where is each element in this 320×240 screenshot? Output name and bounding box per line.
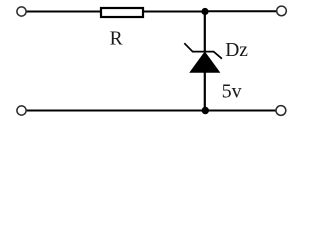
- zener diode Dz cathode bar: [184, 43, 222, 59]
- wire zener top vertical: [204, 12, 206, 53]
- node junction bottom: [202, 107, 209, 114]
- wire bottom: [27, 110, 276, 112]
- node junction top: [201, 8, 208, 15]
- svg-text:Dz: Dz: [225, 40, 248, 61]
- terminal bottom-left: [17, 106, 26, 115]
- resistor R: [101, 8, 143, 17]
- zener diode Dz anode triangle: [190, 52, 219, 72]
- wire top-right: [205, 10, 277, 12]
- terminal top-right: [277, 6, 287, 16]
- wire top-left: [27, 11, 100, 13]
- svg-text:5v: 5v: [222, 81, 242, 103]
- wire zener bottom vertical: [204, 72, 206, 111]
- wire top-middle: [144, 11, 205, 13]
- terminal bottom-right: [276, 106, 286, 116]
- terminal top-left: [17, 7, 26, 16]
- svg-text:R: R: [110, 29, 123, 50]
